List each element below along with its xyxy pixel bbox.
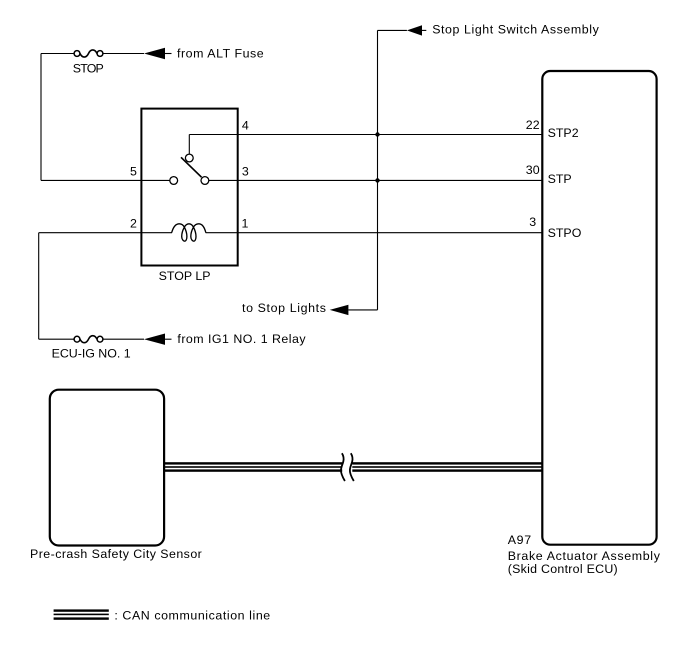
arrow: from ALT Fuse: [144, 48, 172, 59]
CAN line right segment (triple line): [352, 462, 542, 472]
pin number 3 (ECU): [529, 215, 536, 229]
legend triple line sample: [54, 609, 109, 619]
cable break symbol: [341, 453, 354, 481]
label Pre-crash Safety City Sensor: [30, 547, 202, 561]
svg-text:Brake Actuator Assembly: Brake Actuator Assembly: [508, 549, 661, 563]
junction node on STP2 line: [375, 132, 379, 136]
svg-text:to Stop Lights: to Stop Lights: [242, 301, 326, 315]
label Stop Light Switch Assembly: [432, 23, 599, 37]
svg-text:2: 2: [130, 216, 137, 230]
coil (relay winding): [172, 224, 206, 241]
svg-text:from IG1 NO. 1 Relay: from IG1 NO. 1 Relay: [177, 332, 306, 346]
wire: top horizontal to arrow: [378, 29, 407, 31]
pin number 5: [130, 165, 137, 179]
pin number 1: [242, 217, 249, 231]
svg-text:4: 4: [242, 119, 249, 133]
wire: pin 3 to ECU STP: [209, 179, 542, 181]
fuse STOP: [74, 50, 103, 57]
label to Stop Lights: [242, 301, 326, 315]
wire: pin 4 inner vertical: [188, 135, 190, 154]
label from ALT Fuse: [177, 46, 264, 60]
sensor box Pre-crash Safety City Sensor: [50, 390, 164, 546]
label STOP LP: [159, 269, 211, 283]
svg-text:Pre-crash Safety City Sensor: Pre-crash Safety City Sensor: [30, 547, 202, 561]
svg-text:: CAN communication line: : CAN communication line: [114, 608, 270, 622]
svg-text:STP2: STP2: [548, 126, 579, 140]
svg-text:from ALT Fuse: from ALT Fuse: [177, 46, 264, 60]
ECU box Brake Actuator Assembly: [542, 71, 656, 545]
junction node on STP line: [375, 178, 379, 182]
relay box STOP LP: [141, 109, 237, 266]
pin number 30: [526, 163, 540, 177]
label STOP: [73, 62, 104, 76]
fuse ECU-IG NO. 1: [74, 336, 103, 343]
pin number 22: [526, 118, 540, 132]
arrow: from IG1 NO. 1 Relay: [144, 334, 172, 345]
svg-text:30: 30: [526, 163, 540, 177]
svg-text:22: 22: [526, 118, 540, 132]
wire: left vertical from STOP fuse to relay pin 5: [40, 54, 42, 181]
svg-text:5: 5: [130, 165, 137, 179]
label Brake Actuator Assembly: [508, 549, 661, 563]
svg-text:STPO: STPO: [548, 226, 582, 240]
svg-text:STP: STP: [548, 172, 572, 186]
svg-text:STOP LP: STOP LP: [159, 269, 211, 283]
legend label CAN communication line: [114, 608, 270, 622]
arrow: Stop Light Switch Assembly: [407, 25, 426, 35]
label A97: [508, 533, 531, 547]
wire: to stop lights horizontal: [348, 309, 377, 311]
label (Skid Control ECU): [508, 562, 618, 576]
switch contact pin 3: [201, 177, 209, 185]
svg-text:1: 1: [242, 217, 249, 231]
wire: pin 5 left segment: [41, 179, 170, 181]
pin number 2: [130, 216, 137, 230]
pin label STP2: [548, 126, 579, 140]
arrow: to Stop Lights: [330, 305, 349, 315]
pin label STP: [548, 172, 572, 186]
wire: stop light switch vertical: [377, 30, 379, 310]
svg-text:Stop Light Switch Assembly: Stop Light Switch Assembly: [432, 23, 599, 37]
pin label STPO: [548, 226, 582, 240]
switch contact pin 5: [170, 177, 178, 185]
switch contact pin 4: [185, 154, 193, 162]
switch blade: [181, 157, 202, 177]
svg-text:3: 3: [529, 215, 536, 229]
wire: ECU-IG fuse row left segment: [39, 338, 74, 340]
wire: STOP fuse to arrow: [103, 53, 144, 55]
svg-text:STOP: STOP: [73, 62, 104, 76]
wire: left vertical from relay pin 2 to ECU-IG fuse: [38, 233, 40, 340]
label from IG1 NO. 1 Relay: [177, 332, 306, 346]
wire: pin 2 left segment to vertical: [39, 232, 172, 234]
wire: pin 4 line to ECU STP2: [189, 134, 542, 136]
label ECU-IG NO. 1: [52, 346, 131, 360]
wire: STOP fuse row horizontal left segment: [41, 53, 74, 55]
svg-text:(Skid Control ECU): (Skid Control ECU): [508, 562, 618, 576]
CAN line left segment (triple line): [164, 462, 342, 472]
wire: ECU-IG fuse to arrow: [103, 338, 144, 340]
pin number 4: [242, 119, 249, 133]
svg-text:3: 3: [242, 165, 249, 179]
svg-text:ECU-IG NO. 1: ECU-IG NO. 1: [52, 346, 131, 360]
pin number 3 (relay): [242, 165, 249, 179]
svg-text:A97: A97: [508, 533, 531, 547]
wire: pin 1 to ECU STPO: [206, 232, 543, 234]
